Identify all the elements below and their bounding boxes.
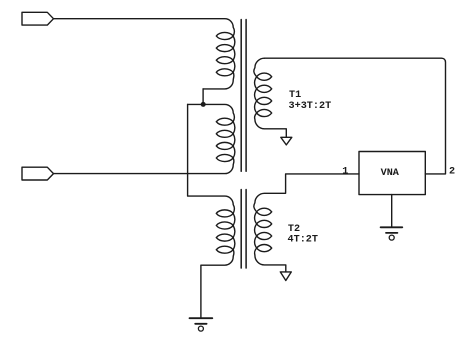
svg-text:2: 2	[449, 167, 455, 178]
svg-text:T2: T2	[288, 224, 300, 235]
svg-text:3+3T:2T: 3+3T:2T	[289, 101, 332, 112]
svg-text:1: 1	[342, 166, 348, 177]
svg-text:4T:2T: 4T:2T	[288, 234, 319, 245]
svg-text:VNA: VNA	[381, 168, 399, 179]
svg-text:T1: T1	[289, 90, 301, 101]
